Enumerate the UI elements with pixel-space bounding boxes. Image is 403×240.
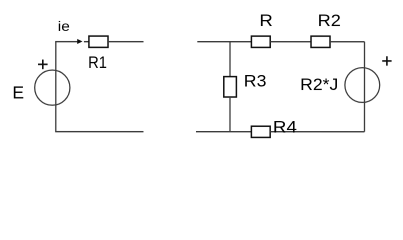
svg-text:R2*J: R2*J xyxy=(300,75,338,94)
svg-text:R4: R4 xyxy=(273,117,297,136)
svg-text:R2: R2 xyxy=(318,11,341,30)
svg-text:R1: R1 xyxy=(88,53,107,72)
svg-text:R3: R3 xyxy=(244,71,267,90)
svg-text:ie: ie xyxy=(58,18,70,34)
svg-text:E: E xyxy=(12,82,24,102)
svg-text:R: R xyxy=(259,11,272,30)
